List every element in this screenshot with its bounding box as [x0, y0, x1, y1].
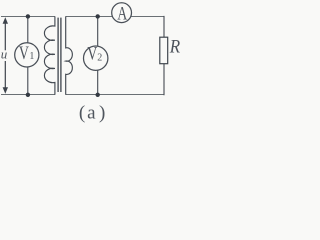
voltage arrow u (up arrow at top): [3, 17, 8, 50]
svg-text:A: A: [117, 2, 127, 24]
svg-text:1: 1: [29, 51, 34, 62]
svg-text:R: R: [169, 36, 180, 57]
wire: right circuit bottom: [66, 94, 165, 96]
transformer core line 1: [57, 18, 59, 92]
svg-text:V: V: [87, 43, 97, 65]
voltage arrow u (down arrow at bottom): [3, 61, 8, 94]
svg-text:a: a: [87, 103, 96, 124]
wire: V2 branch bottom: [97, 70, 99, 95]
junction dot: node d (bottom of V2): [96, 93, 100, 97]
wire: right circuit right side + resistor leads: [163, 16, 165, 95]
wire: left circuit top: [1, 15, 55, 17]
wire: V1 branch top: [27, 16, 29, 43]
wire: V1 branch bottom: [27, 67, 29, 95]
svg-text:(: (: [79, 103, 85, 124]
svg-text:2: 2: [97, 52, 102, 63]
junction dot: node a (top of V1): [26, 14, 30, 18]
voltmeter V1: [15, 43, 39, 67]
voltmeter V2: [84, 46, 108, 70]
svg-text:u: u: [1, 46, 8, 61]
svg-text:V: V: [19, 42, 29, 64]
resistor R body: [160, 37, 168, 64]
transformer T secondary winding: [66, 16, 73, 94]
wire: right circuit top: [66, 15, 164, 17]
transformer core line 2: [60, 18, 62, 92]
transformer T primary winding: [44, 16, 54, 94]
junction dot: node b (bottom of V1): [26, 93, 30, 97]
wire: V2 branch top: [97, 16, 99, 46]
ammeter A: [112, 3, 132, 23]
wire: left circuit bottom: [1, 94, 55, 96]
svg-text:): ): [99, 103, 105, 124]
junction dot: node c (top of V2): [96, 14, 100, 18]
